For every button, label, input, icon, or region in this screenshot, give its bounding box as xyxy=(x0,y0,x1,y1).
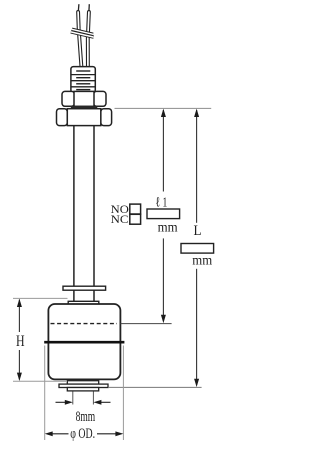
8mm left arrow xyxy=(56,401,71,403)
cap rib dash 3 xyxy=(76,83,90,85)
wire right outline xyxy=(88,12,89,67)
H up arrowhead xyxy=(17,299,22,307)
lower hex nut left facet xyxy=(57,109,68,126)
svg-text:L: L xyxy=(194,223,202,239)
L up arrowhead xyxy=(194,109,199,117)
svg-text:mm: mm xyxy=(158,221,178,236)
cap rib line 3 xyxy=(71,86,95,88)
L down arrowhead xyxy=(194,379,199,387)
cap rib dash 2 xyxy=(76,77,90,79)
float weld band xyxy=(44,341,124,344)
L dimension line lower segment xyxy=(196,269,198,385)
wire left outline xyxy=(78,12,81,67)
L bottom extension line xyxy=(109,386,202,388)
H down arrowhead xyxy=(17,373,22,381)
float body xyxy=(48,304,120,379)
retainer washer bottom xyxy=(67,388,98,391)
cap rib dash 1 xyxy=(76,70,90,72)
svg-text:NC: NC xyxy=(111,212,129,226)
float bushing xyxy=(68,301,99,304)
svg-text:mm: mm xyxy=(192,253,212,268)
8mm right extension line xyxy=(92,392,94,405)
stop collar on stem xyxy=(63,286,106,290)
cord-grip cap body xyxy=(71,67,95,93)
NC contact box xyxy=(130,214,141,224)
H bottom extension line xyxy=(13,380,66,382)
svg-text:8mm: 8mm xyxy=(76,409,96,425)
l1 dimension line upper segment xyxy=(162,110,164,192)
OD left arrow xyxy=(47,433,69,435)
8mm left extension line xyxy=(72,392,74,405)
wire tip right xyxy=(88,4,90,11)
float internal dashed level line xyxy=(51,323,118,325)
svg-text:H: H xyxy=(16,333,25,350)
upper hex nut right facet xyxy=(94,91,107,106)
gasket band between nuts xyxy=(71,106,98,109)
lower hex nut right facet xyxy=(101,109,112,126)
L dimension line upper segment xyxy=(196,110,198,223)
l1 value box xyxy=(147,209,180,219)
8mm right arrow xyxy=(96,401,111,403)
retainer washer middle wide xyxy=(59,384,108,387)
cap rib dash 4 xyxy=(76,89,90,91)
H dimension line upper segment xyxy=(18,300,20,333)
stem right line xyxy=(93,126,95,302)
OD right arrow xyxy=(97,433,121,435)
H dimension line lower segment xyxy=(18,350,20,380)
l1 bottom extension line xyxy=(121,323,172,325)
top datum leader line xyxy=(115,107,212,109)
upper hex nut centre facet xyxy=(74,91,94,106)
cap rib line 2 xyxy=(71,80,95,82)
cap rib line 1 xyxy=(71,74,95,76)
svg-text:φ OD.: φ OD. xyxy=(70,426,95,442)
lower hex nut centre facet xyxy=(67,109,101,126)
L value box xyxy=(181,244,214,254)
stem left line xyxy=(73,126,75,302)
retainer washer top xyxy=(67,381,98,384)
NO contact box xyxy=(130,204,141,214)
l1 dimension line lower segment xyxy=(162,238,164,321)
upper hex nut left facet xyxy=(62,91,75,106)
svg-text:ℓ 1: ℓ 1 xyxy=(156,195,168,210)
l1 up arrowhead xyxy=(161,109,166,117)
twist band upper xyxy=(72,29,93,34)
OD left extension line xyxy=(44,346,46,441)
H top extension line xyxy=(13,297,68,299)
l1 down arrowhead xyxy=(161,315,166,323)
wire tip left xyxy=(77,4,80,11)
OD right extension line xyxy=(122,346,124,441)
twist band lower xyxy=(71,32,94,37)
